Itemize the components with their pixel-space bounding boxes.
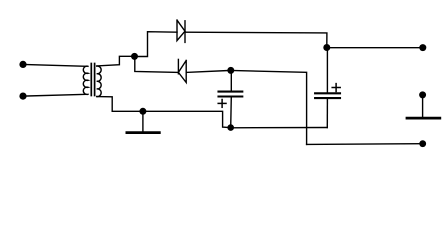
polarity mark + of C1 (218, 100, 226, 108)
transformer TR1 core (91, 64, 94, 96)
wire ground node to node D (143, 111, 231, 127)
wire T2 to transformer primary bottom (23, 94, 86, 96)
transformer TR1 secondary winding (97, 66, 101, 97)
diode D1 (points right) (177, 20, 185, 42)
junction ground node G (139, 108, 146, 115)
junction node B (323, 44, 330, 51)
wire node C to negative rail (right and down) (231, 71, 307, 145)
terminal T2 (AC input bottom) (19, 93, 26, 100)
wire negative rail to terminal T5 (307, 143, 423, 146)
wire node C to capacitor C1 top (230, 70, 232, 90)
wire node B down to capacitor C2 top (326, 48, 328, 93)
wire D2 anode to node C (186, 70, 231, 72)
terminal T3 (positive output) (419, 44, 426, 51)
ground symbol GND2 (407, 95, 440, 118)
terminal T1 (AC input top) (19, 61, 26, 68)
wire capacitor C1 bottom to node D (230, 97, 233, 128)
wire node B to terminal T3 (327, 47, 423, 49)
capacitor C1 (219, 92, 243, 97)
junction node A (131, 53, 138, 60)
wire node D to capacitor C2 bottom (ground rail) (231, 127, 328, 129)
wire node A down to diode D2 cathode (135, 57, 179, 73)
wire secondary top to node A (97, 56, 135, 66)
junction node D (227, 124, 234, 131)
wire capacitor C2 bottom to ground rail (326, 98, 328, 127)
junction node C (227, 67, 234, 74)
polarity mark + of C2 (332, 84, 340, 92)
transformer TR1 primary winding (83, 66, 88, 94)
diode D2 (points left) (178, 59, 186, 82)
capacitor C2 (315, 93, 340, 98)
terminal T5 (negative output) (419, 140, 426, 147)
wire D1 cathode to node B corner (185, 32, 327, 47)
ground symbol GND1 (127, 111, 159, 132)
terminal T4 (ground output) (419, 91, 426, 98)
wire node A up to diode D1 anode (135, 32, 178, 57)
wire secondary bottom to ground node (97, 97, 143, 112)
wire T1 to transformer primary top (23, 64, 86, 66)
